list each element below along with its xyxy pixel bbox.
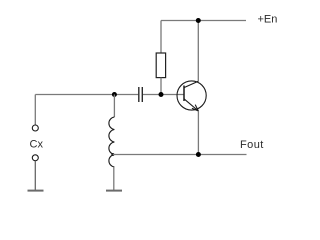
wire tap line to Fout bbox=[113, 154, 247, 156]
ground bar left bbox=[28, 190, 44, 192]
transistor Q1 collector lead bbox=[184, 81, 198, 87]
wire inductor top column bbox=[113, 95, 115, 118]
transistor Q1 circle bbox=[177, 81, 206, 110]
node junction resistor to base bbox=[159, 92, 164, 97]
svg-text:Fout: Fout bbox=[240, 139, 264, 151]
node junction emitter to Fout line bbox=[196, 152, 201, 157]
svg-text:Cx: Cx bbox=[30, 139, 44, 151]
wire top rail from resistor corner to +En bbox=[161, 20, 246, 22]
wire resistor bottom to base node bbox=[160, 78, 162, 95]
transistor Q1 base bar bbox=[183, 86, 185, 102]
terminal Cx upper bbox=[32, 125, 38, 131]
wire collector column bbox=[197, 21, 199, 82]
svg-text:+En: +En bbox=[258, 14, 278, 26]
transistor Q1 emitter lead with arrow bbox=[184, 99, 198, 111]
node junction top (collector to rail) bbox=[196, 18, 201, 23]
wire resistor column upper bbox=[160, 21, 162, 54]
resistor R1 bbox=[156, 53, 165, 78]
wire lower terminal to ground bbox=[34, 161, 36, 190]
wire base from capacitor to transistor bbox=[143, 94, 184, 96]
wire left vertical down to Cx terminal bbox=[34, 95, 36, 126]
capacitor C1 left plate bbox=[138, 87, 140, 102]
node junction inductor top bbox=[112, 92, 117, 97]
node tap of inductor bbox=[111, 153, 114, 156]
inductor L1 (4 loops, tapped) bbox=[109, 117, 115, 167]
ground bar under inductor bbox=[106, 190, 122, 192]
wire inductor bottom to ground bbox=[113, 167, 115, 190]
wire left horizontal from Cx to capacitor bbox=[35, 94, 138, 96]
capacitor C1 right plate bbox=[141, 87, 143, 102]
wire emitter column down to Fout line bbox=[197, 111, 199, 155]
terminal Cx lower bbox=[32, 155, 38, 161]
